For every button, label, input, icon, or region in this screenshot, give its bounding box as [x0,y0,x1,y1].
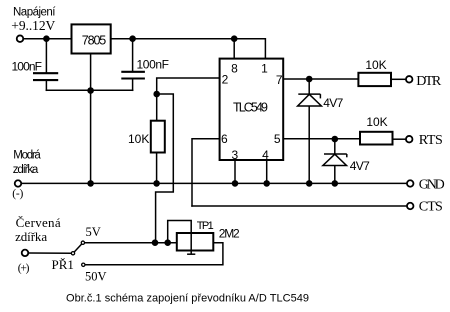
svg-text:Napájení: Napájení [13,7,56,19]
junction dot 5V row left [152,239,159,246]
switch PR1 5V contact [81,241,84,244]
svg-text:5: 5 [274,132,281,146]
wire trimmer TP1 wiper loop [168,221,192,243]
svg-text:Obr.č.1 schéma zapojení převod: Obr.č.1 schéma zapojení převodníku A/D T… [66,293,309,305]
terminal red socket (+) [22,250,29,257]
wire pin 5 to resistor R3 [283,138,360,140]
resistor R2 10K body (DTR) [358,73,391,86]
zener diode D2 4V7 [323,154,347,166]
wire GND row [22,182,406,184]
capacitor C2 100nF plates [121,72,145,79]
svg-text:4: 4 [262,148,269,162]
wire zener D1 bottom lead to GND row [308,106,310,183]
wire capacitor C1 top lead [45,39,47,73]
junction dot pin 2 node [153,91,160,98]
wire capacitor C1 bottom lead [45,80,47,90]
wire resistor R3 to RTS terminal [393,138,405,140]
svg-text:5V: 5V [86,225,101,239]
svg-text:(-): (-) [12,188,23,200]
wire pin 8 stub [233,39,235,59]
wire capacitor C2 top lead [132,39,134,72]
svg-text:TLC549: TLC549 [233,100,268,114]
svg-text:100nF: 100nF [137,57,170,71]
svg-text:10K: 10K [365,58,386,72]
junction dot pin 4 at GND row [263,180,270,187]
wire ground bus under capacitors [46,89,132,91]
terminal RTS [406,136,413,143]
regulator U2 7805 box [72,24,111,53]
junction dot pin 8 [231,35,238,42]
terminal DTR [406,76,413,83]
switch PR1 pole contact [71,252,74,255]
wire zener D2 top lead [334,139,336,154]
svg-text:RTS: RTS [419,133,443,148]
svg-text:1: 1 [261,62,268,76]
svg-text:100nF: 100nF [12,59,43,73]
junction dot zener D1 at GND row [306,180,313,187]
wire pin 3 lead to GND row [234,160,236,183]
wire node branch down to 5V row (jog) [156,94,174,243]
svg-text:8: 8 [231,62,238,76]
junction dot 5V row right (wiper) [164,239,171,246]
junction dot pin 3 at GND row [232,180,239,187]
svg-text:7: 7 [276,73,283,87]
svg-text:CTS: CTS [419,200,443,215]
wire top rail right: 7805 output to pin 1 corner [111,39,266,59]
wire pin 7 to resistor R2 [283,78,358,80]
terminal CTS [407,203,414,210]
trimmer TP1 wiper line and bar [187,233,195,254]
wire capacitor C2 bottom lead [132,79,134,91]
svg-text:+9..12V: +9..12V [11,18,55,33]
wire 7805 ground lead down to GND row [90,54,92,184]
terminal GND [407,180,414,187]
svg-text:DTR: DTR [416,74,442,89]
zener diode D1 4V7 [298,94,322,106]
wire trimmer TP1 right to 50V contact [86,243,223,265]
wire resistor R1 bottom lead to GND row [156,153,158,184]
terminal blue socket (-) [15,180,22,187]
capacitor C1 100nF plates [33,73,58,80]
wire switch lever [75,244,82,251]
wire resistor R2 to DTR terminal [391,78,405,80]
junction dot 7805 gnd at GND row [87,180,94,187]
svg-text:6: 6 [221,132,228,146]
wire pin 4 lead to GND row [266,160,268,183]
svg-text:GND: GND [419,177,445,192]
junction dot zener D2 at GND row [332,180,339,187]
wire pin 2 to node [157,78,220,94]
svg-text:Červená: Červená [16,215,61,230]
svg-text:zdířka: zdířka [13,164,39,176]
switch PR1 50V contact [82,263,85,266]
terminal power input [17,35,24,42]
wire zener D1 top lead [308,79,310,94]
svg-text:TP1: TP1 [197,220,214,232]
wire 5V contact to trimmer TP1 left [85,242,177,244]
svg-text:Modrá: Modrá [13,150,41,162]
svg-text:PŘ1: PŘ1 [52,257,74,272]
svg-text:4V7: 4V7 [323,96,343,110]
op-amp U1 TLC549 box [220,59,284,160]
svg-text:(+): (+) [18,263,30,275]
wire zener D2 bottom lead to GND row [334,166,336,184]
junction dot zener D2 top [332,136,339,143]
svg-text:7805: 7805 [82,34,107,48]
svg-text:50V: 50V [85,270,107,284]
svg-text:3: 3 [232,148,239,162]
wire top rail left: input terminal to 7805 [24,38,71,40]
svg-text:4V7: 4V7 [350,159,370,173]
junction dot R1 at GND row [153,180,160,187]
resistor R1 10K body (vertical) [151,121,165,153]
svg-text:2: 2 [222,72,229,86]
svg-text:10K: 10K [128,132,149,146]
svg-text:zdířka: zdířka [15,229,47,244]
junction dot C2 top [129,35,136,42]
wire plus terminal to switch pole [29,252,71,254]
trimmer TP1 2M2 body [177,233,214,251]
svg-text:2M2: 2M2 [219,227,240,241]
junction dot ground bus [87,87,94,94]
junction dot zener D1 top [306,76,313,83]
wire pin 6 to CTS corner [192,139,220,206]
wire CTS row [192,205,406,207]
junction dot C1 top [43,35,50,42]
svg-text:10K: 10K [366,115,387,129]
resistor R3 10K body (RTS) [360,132,393,145]
wire resistor R1 top lead [156,94,158,121]
